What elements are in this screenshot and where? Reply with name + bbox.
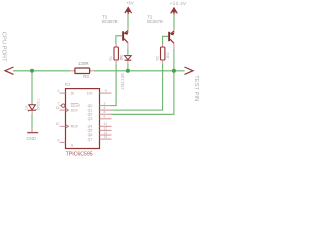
supply +12.4V arrow [171,8,178,14]
pin DI (2) [60,92,66,94]
ground [27,132,38,134]
svg-text:14: 14 [104,135,108,139]
pin Q3 (6) [100,118,112,120]
svg-text:CPU PORT: CPU PORT [0,32,6,62]
transistor T2 BC557B (PNP) [168,29,174,49]
svg-text:5: 5 [104,110,106,114]
wire net right segment [94,70,185,72]
pin Q0 (3) [100,105,112,107]
svg-text:1N4148: 1N4148 [120,73,125,90]
wire R2 to pin Q1 (crosses net) [111,64,162,111]
svg-text:7: 7 [58,101,60,105]
svg-text:+12.4V: +12.4V [170,1,187,7]
svg-text:Q2: Q2 [88,112,93,116]
svg-text:2: 2 [58,89,60,93]
svg-text:D1: D1 [120,55,124,59]
svg-text:SCLR: SCLR [71,104,81,108]
arrow TEST PIN [185,67,194,74]
wire T2 collector to net and pin Q2 [111,49,174,114]
svg-text:RCK: RCK [71,125,79,129]
svg-text:D3: D3 [25,105,29,109]
svg-text:BC557B: BC557B [147,19,163,24]
transistor T3 BC557B (PNP) [122,28,128,48]
node junction T2 collector/net [172,69,176,73]
resistor R3 120R (series in net) [70,70,75,72]
wire down to protection diode [31,71,33,105]
svg-text:Q7: Q7 [88,137,93,141]
pin Q7 (14) [100,138,112,140]
wire +12.4V to T2 emitter [173,14,175,28]
IC IC1 TPIC6C595 box [66,89,100,149]
pin RCK (10) [60,125,66,127]
svg-text:Q5: Q5 [88,129,93,133]
wire R1 to pin Q0 (crosses net) [111,64,116,106]
svg-text:R3: R3 [83,74,89,79]
svg-text:12: 12 [104,126,108,130]
wire net left segment [13,70,70,72]
svg-text:120R: 120R [78,61,90,66]
wire T3 collector to D1 [127,48,129,55]
svg-text:3: 3 [104,102,106,106]
pin Q4 (11) [100,125,112,127]
wire diode to GND [31,114,33,128]
svg-text:10: 10 [56,122,60,126]
pin G (8) [60,141,66,143]
svg-text:R2: R2 [156,56,160,60]
svg-text:IC1: IC1 [65,82,71,86]
svg-text:TPIC6C595: TPIC6C595 [66,152,93,158]
pin Q1 (4) [100,109,112,111]
node junction D1/net [126,69,130,73]
pin Q6 (13) [100,134,112,136]
supply +6V arrow [125,8,132,15]
diode D1 1N4148 [125,56,132,64]
svg-text:SCK: SCK [71,108,79,112]
svg-text:+6V: +6V [126,1,134,6]
pin SCLR (7) [60,105,62,107]
wire +6V to T3 emitter [127,14,129,28]
pin Q2 (5) [100,113,112,115]
svg-text:GND: GND [26,136,36,141]
wire T3 base [116,36,122,44]
svg-text:DO: DO [87,91,93,95]
node junction at x=32 [30,69,34,73]
arrow CPU PORT [5,67,14,74]
svg-text:TEST PIN: TEST PIN [193,75,199,101]
svg-text:R1: R1 [109,56,113,60]
svg-text:Q3: Q3 [88,117,93,121]
svg-text:DI: DI [71,91,75,95]
resistor R2 [161,44,165,64]
svg-text:Q0: Q0 [88,104,93,108]
svg-text:BC557B: BC557B [102,19,118,24]
svg-text:9: 9 [105,89,107,93]
pin Q5 (12) [100,129,112,131]
svg-text:6: 6 [104,115,106,119]
pin DO (9) [100,92,112,94]
wire D1 to net [127,64,129,71]
wire T2 base [163,36,169,44]
svg-text:ZPD5.1: ZPD5.1 [36,99,40,111]
resistor R1 [114,44,118,64]
diode D3 (protection, to GND) [28,105,36,115]
svg-text:G: G [71,144,74,148]
svg-text:2K2: 2K2 [166,52,170,58]
pin SCK (15) [60,109,66,111]
svg-text:15: 15 [56,106,60,110]
svg-text:8: 8 [58,138,60,142]
